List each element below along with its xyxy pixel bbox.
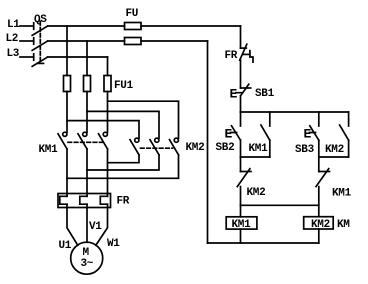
relay FR heater element 2 (80, 196, 87, 204)
button SB2 actuator dashes (231, 132, 237, 134)
wire SB2 lower (240, 140, 242, 157)
svg-text:E: E (225, 127, 233, 142)
svg-text:FU1: FU1 (114, 80, 134, 92)
wire bottom rail (208, 242, 319, 244)
wire FR to SB1 (240, 60, 242, 88)
contactor KM2 pole 3 blade (170, 140, 179, 155)
switch QS pole 1 contact (33, 23, 35, 29)
svg-text:KM2: KM2 (325, 144, 344, 156)
wire KM1 pole2 to heater (86, 149, 88, 196)
contact KM2 interlock upper wire (240, 157, 242, 172)
contactor KM1 pole 3 blade (99, 134, 108, 149)
motor M circle (71, 242, 103, 274)
contactor KM1 linkage dashed (68, 141, 104, 143)
svg-text:FR: FR (117, 196, 130, 208)
wire KM2 interlock lower (240, 187, 242, 217)
svg-text:W1: W1 (107, 238, 120, 250)
wire KM2 coil to bottom rail (318, 229, 320, 243)
svg-text:3~: 3~ (81, 258, 94, 270)
wire L1 stub (20, 25, 34, 27)
wire KM1 coil to bottom rail (240, 229, 242, 243)
svg-text:KM1: KM1 (39, 144, 59, 156)
svg-text:KM2: KM2 (247, 187, 266, 199)
contact KM1 interlock seat bar (319, 171, 330, 173)
wire branch B to KM2 pole2 (87, 111, 159, 138)
wire SB1 to rail (240, 96, 242, 112)
wire KM2 pole1 output to phase C node (108, 155, 140, 163)
relay FR heater element 3 (100, 196, 107, 204)
contact KM1 interlock blade (316, 169, 329, 187)
contact KM2 aux upper wire (348, 112, 350, 126)
wire KM2 pole3 output to phase A node (67, 155, 179, 179)
wire right merge rail (319, 156, 349, 158)
contact KM1 aux blade (261, 125, 270, 140)
contactor KM1 pole 2 blade (78, 134, 87, 149)
wire KM2 pole2 output to phase B node (87, 155, 159, 170)
wire KM1 pole1 to heater (66, 149, 68, 196)
fuse FU upper (125, 23, 142, 30)
contactor KM2 linkage dashed (141, 147, 173, 149)
wire L3 (48, 56, 108, 58)
svg-text:V1: V1 (89, 221, 102, 233)
switch QS pole 2 blade (32, 41, 48, 50)
wire phase A below FU1 (66, 92, 68, 133)
wire branch C to KM2 pole3 (108, 101, 179, 138)
switch QS linkage handle tick (37, 62, 44, 64)
fuse FU1 pole 3 (104, 76, 111, 92)
svg-text:FR: FR (225, 50, 238, 62)
contactor KM1 pole 1 blade (58, 134, 67, 149)
contactor KM2 pole 3 contact circle (174, 138, 178, 142)
wire control phase drop (240, 26, 242, 48)
contactor KM2 pole 1 contact circle (135, 138, 139, 142)
svg-text:KM1: KM1 (332, 188, 352, 200)
svg-text:U1: U1 (59, 240, 72, 252)
relay FR heater box (58, 194, 111, 208)
contact KM2 interlock blade (237, 169, 250, 187)
svg-text:FU: FU (126, 8, 139, 20)
switch QS pole 2 contact (33, 38, 35, 44)
svg-text:E: E (230, 87, 238, 102)
button SB3 actuator dashes (310, 132, 316, 134)
switch QS linkage dashed (39, 22, 41, 64)
wire phase C drop (107, 57, 109, 76)
svg-text:SB2: SB2 (216, 142, 235, 154)
wire KM1 interlock lower (318, 187, 320, 217)
coil KM2 box (304, 217, 334, 229)
wire L2 stub (20, 40, 34, 42)
contact KM2 aux blade (340, 125, 349, 140)
wire heater3 to motor W1 (96, 204, 108, 245)
contact KM1 interlock upper wire (318, 157, 320, 172)
button SB1 seat bar (241, 87, 251, 89)
contactor KM2 pole 2 contact circle (155, 138, 159, 142)
contact KM1 aux upper wire (269, 112, 271, 126)
svg-text:KM: KM (337, 219, 350, 231)
wire phase A drop (66, 26, 68, 76)
button SB1 actuator dashes (236, 92, 244, 94)
wire phase B below FU1 (86, 92, 88, 133)
wire L2 to FU (48, 40, 125, 42)
button SB2 blade (232, 126, 241, 140)
wire control top rail (241, 111, 349, 113)
fuse FU lower (125, 38, 142, 45)
wire branch A to KM2 pole1 (67, 121, 139, 139)
wire KM2 aux lower (348, 140, 350, 157)
wire KM1 pole3 to heater (107, 149, 109, 196)
coil KM1 box (226, 217, 257, 229)
switch QS pole 1 blade (32, 26, 48, 35)
switch QS pole 3 blade (32, 57, 48, 66)
wire L3 stub (20, 56, 34, 58)
wire L1 after FU (141, 25, 241, 27)
wire left merge rail (241, 156, 270, 158)
button SB1 blade (241, 84, 249, 95)
contactor KM2 pole 1 blade (130, 140, 139, 155)
svg-text:E: E (304, 127, 312, 142)
switch QS pole 3 contact (33, 54, 35, 60)
contactor KM1 pole 1 contact circle (63, 132, 67, 136)
button SB3 upper wire (318, 112, 320, 126)
wire SB3 lower (318, 140, 320, 157)
fuse FU1 pole 2 (84, 76, 91, 92)
wire heater2 to motor V1 (86, 204, 88, 242)
relay FR contact blade (240, 44, 247, 60)
contactor KM2 pole 2 blade (150, 140, 159, 155)
svg-text:KM1: KM1 (249, 143, 269, 155)
svg-text:L2: L2 (6, 33, 19, 45)
svg-text:SB1: SB1 (255, 88, 275, 100)
svg-text:L3: L3 (7, 48, 20, 60)
wire coil cross link (241, 204, 319, 206)
svg-text:L1: L1 (7, 19, 20, 31)
wire phase C below FU1 (107, 92, 109, 133)
fuse FU1 pole 1 (64, 76, 71, 92)
wire L1 to FU (48, 25, 125, 27)
svg-text:SB3: SB3 (295, 144, 315, 156)
svg-text:KM2: KM2 (186, 142, 205, 154)
contact KM2 interlock seat bar (241, 171, 252, 173)
relay FR heater element 1 (60, 196, 67, 204)
relay FR contact hook (250, 51, 253, 63)
svg-text:KM2: KM2 (311, 219, 330, 231)
contactor KM1 pole 2 contact circle (83, 132, 87, 136)
button SB3 blade (310, 126, 319, 140)
relay FR contact seat bar (241, 47, 247, 49)
wire L2 after FU (141, 40, 208, 42)
contactor KM1 pole 3 contact circle (103, 132, 107, 136)
wire heater1 to motor U1 (67, 204, 78, 245)
relay FR contact stub (243, 53, 250, 55)
button SB2 upper wire (240, 112, 242, 126)
wire phase B drop (86, 41, 88, 76)
wire L2 return line (207, 41, 209, 243)
wire KM1 aux lower (269, 140, 271, 157)
